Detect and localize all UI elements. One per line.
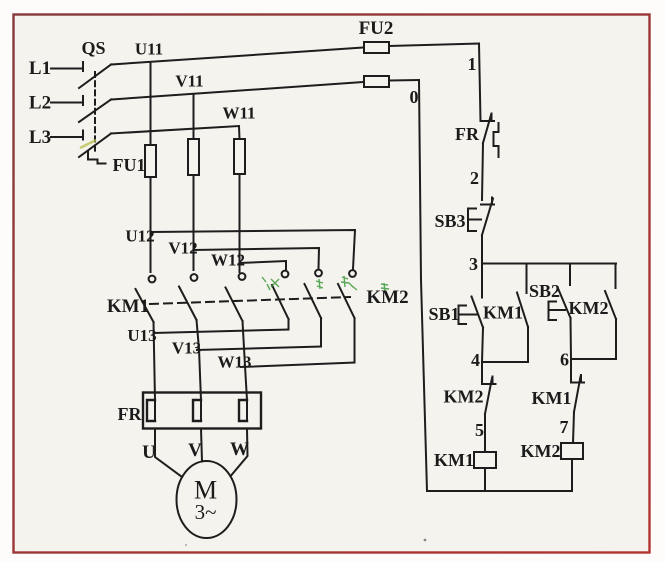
svg-text:KM2: KM2 (366, 287, 408, 308)
svg-text:L1: L1 (29, 58, 51, 79)
svg-text:V: V (188, 440, 202, 461)
svg-text:KM2: KM2 (521, 441, 561, 461)
svg-text:2: 2 (470, 168, 479, 188)
svg-text:FR: FR (455, 124, 480, 144)
svg-text:L3: L3 (29, 127, 51, 148)
svg-text:V12: V12 (168, 239, 197, 258)
svg-text:W11: W11 (222, 104, 255, 123)
svg-text:5: 5 (475, 420, 484, 440)
svg-text:QS: QS (81, 38, 105, 58)
svg-text:V11: V11 (175, 72, 203, 91)
svg-text:L2: L2 (29, 93, 51, 114)
svg-text:KM1: KM1 (532, 388, 572, 408)
svg-text:0: 0 (410, 87, 419, 107)
svg-text:KM1: KM1 (483, 303, 523, 323)
svg-text:6: 6 (560, 350, 569, 370)
svg-text:FR: FR (118, 404, 143, 424)
svg-text:3~: 3~ (195, 500, 217, 524)
svg-text:W12: W12 (211, 251, 245, 270)
svg-text:7: 7 (560, 417, 569, 437)
svg-text:W13: W13 (218, 353, 252, 372)
svg-text:U: U (142, 442, 156, 463)
svg-text:KM2: KM2 (569, 298, 609, 318)
svg-text:SB2: SB2 (529, 281, 560, 301)
svg-text:U11: U11 (135, 40, 163, 59)
svg-text:1: 1 (468, 54, 477, 74)
svg-text:U13: U13 (127, 326, 156, 345)
svg-text:V13: V13 (172, 339, 201, 358)
svg-text:KM1: KM1 (107, 296, 149, 317)
svg-text:SB1: SB1 (428, 304, 459, 324)
svg-text:4: 4 (471, 350, 480, 370)
svg-text:FU2: FU2 (359, 18, 394, 39)
svg-text:KM1: KM1 (434, 450, 474, 470)
svg-text:W: W (230, 439, 249, 460)
svg-text:3: 3 (469, 254, 478, 274)
svg-text:FU1: FU1 (113, 155, 146, 175)
svg-text:SB3: SB3 (434, 211, 465, 231)
svg-text:KM2: KM2 (444, 387, 484, 407)
svg-text:U12: U12 (125, 227, 154, 246)
